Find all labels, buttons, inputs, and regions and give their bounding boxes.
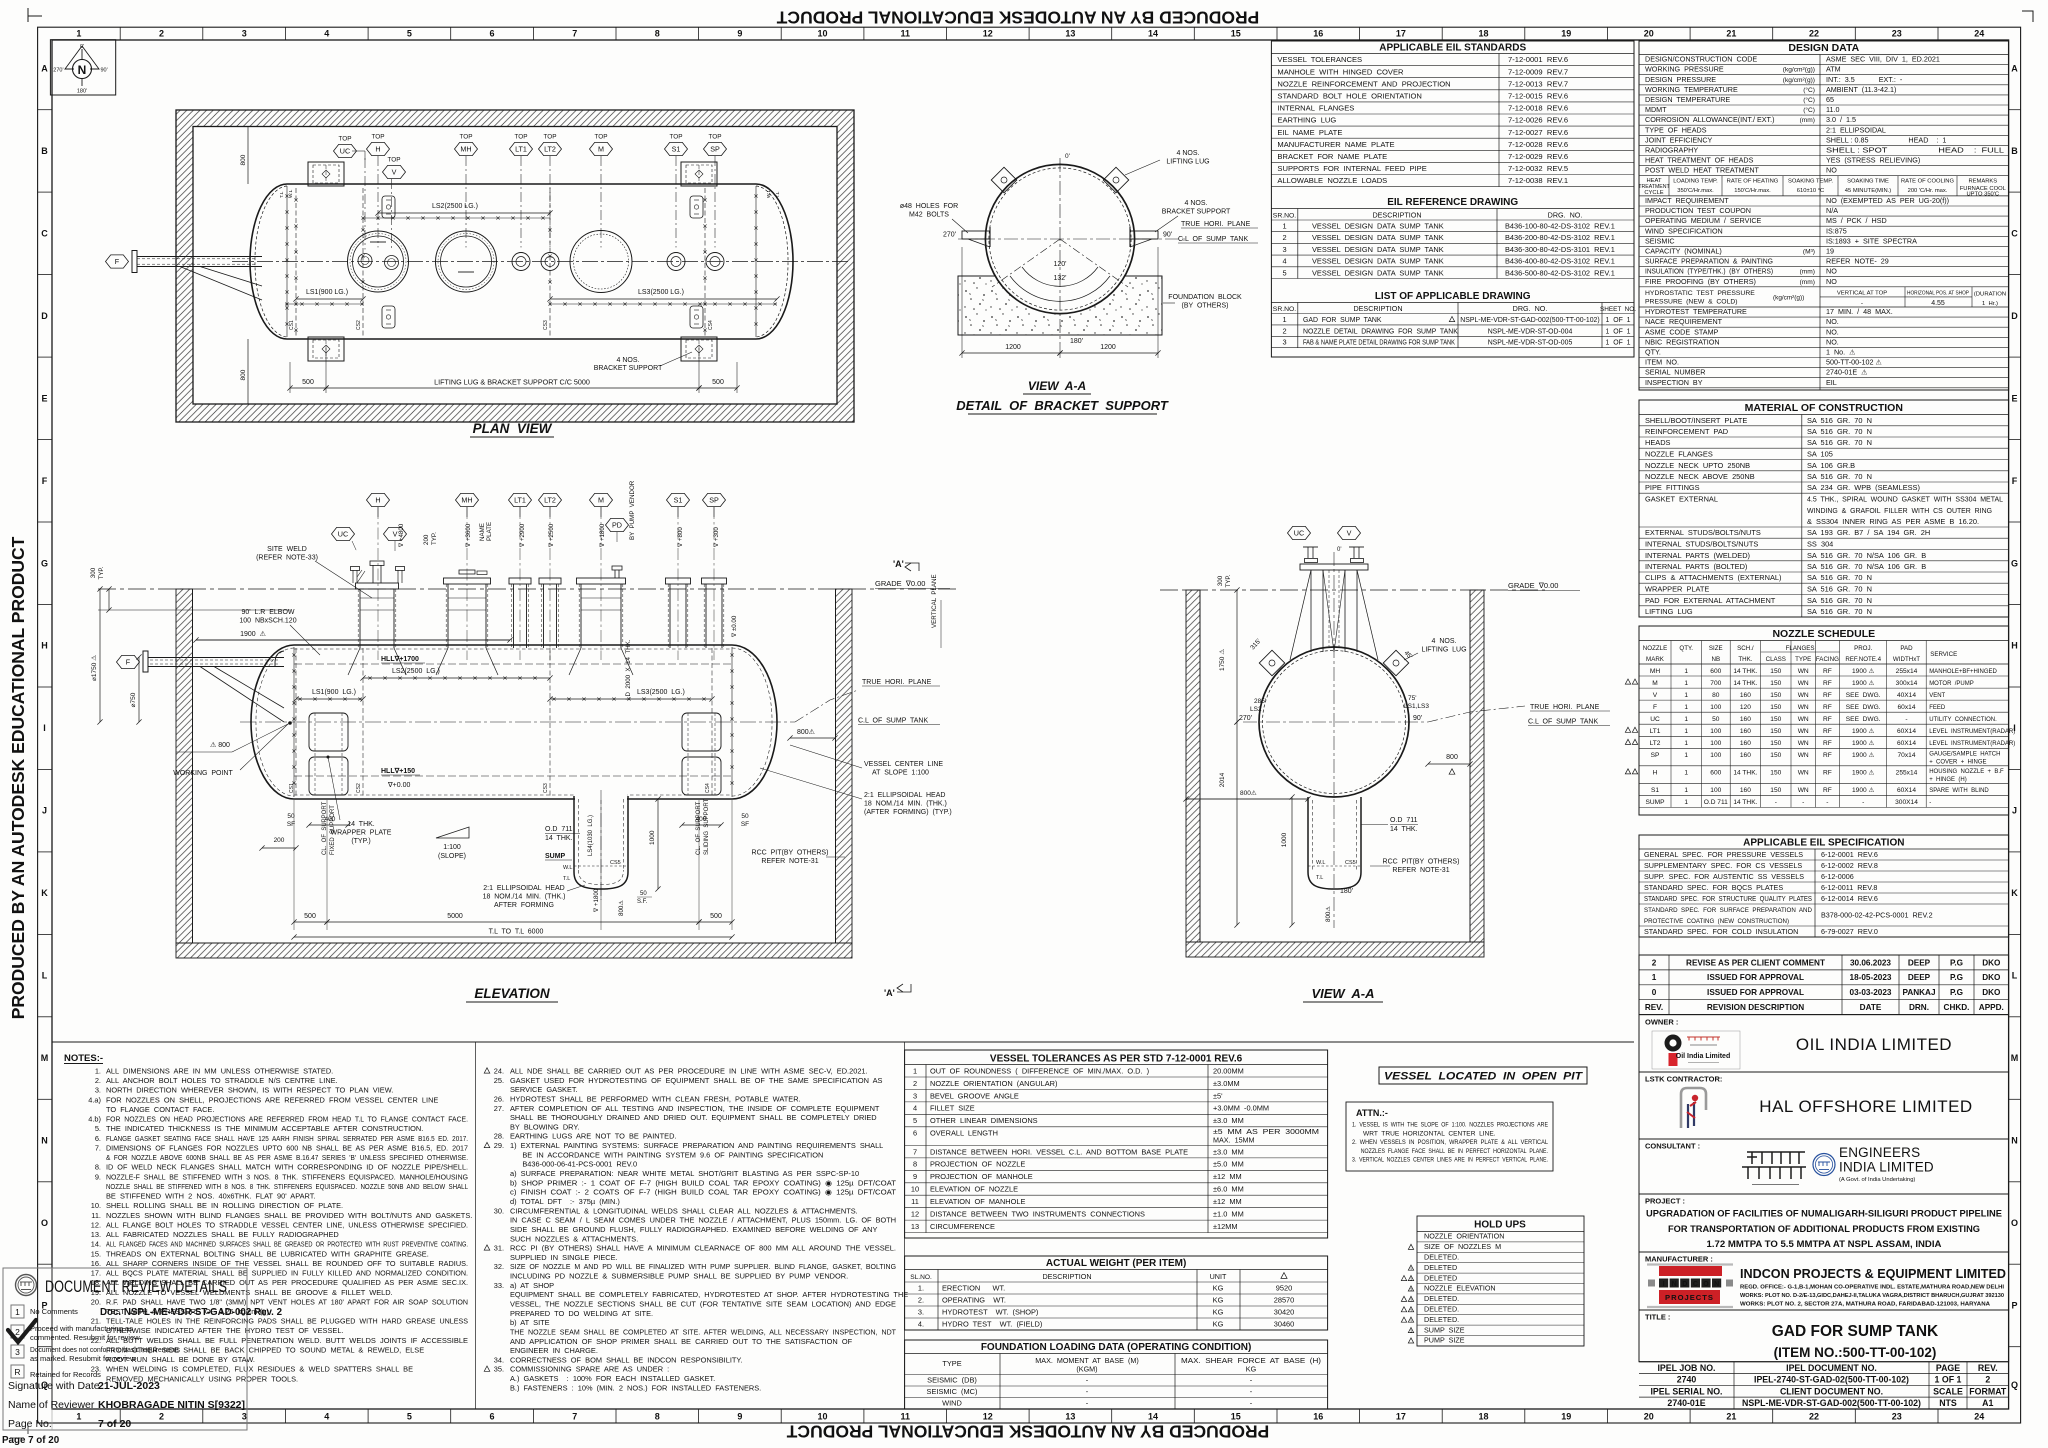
view a-a: vessel circular section — [1259, 647, 1409, 797]
svg-text:6: 6 — [913, 1129, 917, 1138]
nozzle LT1 (plan) — [512, 253, 530, 271]
svg-text:32.: 32. — [494, 1262, 504, 1271]
svg-text:TOP: TOP — [387, 157, 400, 164]
svg-text:VESSEL DESIGN DATA SUMP TA: VESSEL DESIGN DATA SUMP TANK — [1312, 257, 1444, 266]
svg-text:Name of Reviewer: Name of Reviewer — [8, 1399, 95, 1411]
svg-text:ALL ANCHOR BOLT HOLES TO: ALL ANCHOR BOLT HOLES TO STRADDLE N/S CE… — [106, 1076, 338, 1085]
svg-text:F: F — [2012, 476, 2018, 486]
svg-text:CLASS: CLASS — [1766, 656, 1786, 663]
svg-text:33.: 33. — [494, 1281, 504, 1290]
svg-text:THK.: THK. — [1738, 656, 1752, 663]
svg-text:O.D 711: O.D 711 — [1390, 817, 1418, 824]
svg-text:2: 2 — [1282, 233, 1286, 242]
svg-text:SEE DWG.: SEE DWG. — [1846, 704, 1881, 711]
svg-text:17.: 17. — [91, 1269, 101, 1278]
svg-text:MARK: MARK — [1646, 656, 1665, 663]
svg-text:SERVICE: SERVICE — [1930, 651, 1957, 658]
corner trim marks — [28, 8, 42, 22]
svg-text:NBIC REGISTRATION: NBIC REGISTRATION — [1645, 337, 1720, 346]
svg-text:1000: 1000 — [1281, 832, 1288, 847]
svg-text:12: 12 — [983, 1412, 993, 1422]
svg-text:4 NOS.: 4 NOS. — [617, 357, 640, 364]
svg-text:NSPL-ME-VDR-ST-GAD-002(500-TT-: NSPL-ME-VDR-ST-GAD-002(500-TT-00-102) — [1460, 317, 1599, 324]
svg-text:ENGINEER IN CHARGE.: ENGINEER IN CHARGE. — [510, 1346, 598, 1355]
svg-text:10: 10 — [911, 1185, 919, 1194]
svg-text:IS:1893 + SITE SPECTRA: IS:1893 + SITE SPECTRA — [1826, 236, 1917, 245]
svg-text:SIZE OF NOZZLE M AND PD: SIZE OF NOZZLE M AND PD WILL BE FINALIZE… — [510, 1262, 896, 1271]
svg-text:PIPE FITTINGS: PIPE FITTINGS — [1645, 483, 1700, 492]
svg-text:12: 12 — [911, 1210, 919, 1219]
svg-text:∇ +1800: ∇ +1800 — [593, 888, 600, 913]
svg-text:2: 2 — [1282, 326, 1286, 335]
svg-text:& FOR NOZZLE ABOVE 600NB: & FOR NOZZLE ABOVE 600NB SHALL BE AS PER… — [106, 1153, 468, 1162]
svg-text:CS4: CS4 — [705, 783, 711, 793]
svg-text:APPLICABLE EIL STANDARDS: APPLICABLE EIL STANDARDS — [1379, 43, 1526, 54]
plan: 4 shell lifting lugs — [382, 196, 395, 218]
svg-text:DRN.: DRN. — [1909, 1003, 1929, 1012]
svg-text:C: C — [41, 228, 48, 238]
svg-text:SUMP: SUMP — [1645, 799, 1665, 806]
svg-text:7-12-0001 REV.6: 7-12-0001 REV.6 — [1508, 55, 1568, 64]
elevation: wrapper plates at supports — [309, 713, 348, 751]
detail: foundation block (concrete) — [958, 276, 1162, 335]
svg-text:INT.: 3.5 EXT.: -: INT.: 3.5 EXT.: - — [1826, 75, 1903, 84]
svg-text:LS3(2500 LG.): LS3(2500 LG.) — [637, 689, 685, 696]
owner block — [1639, 1015, 2009, 1072]
svg-text:Page 7 of 20: Page 7 of 20 — [2, 1435, 60, 1446]
svg-text:NOZZLE NECK UPTO 250NB: NOZZLE NECK UPTO 250NB — [1645, 461, 1750, 470]
svg-text:1: 1 — [1282, 315, 1286, 324]
svg-text:1900 ⚠: 1900 ⚠ — [1852, 769, 1875, 777]
svg-text:CIRCUMFERENCE: CIRCUMFERENCE — [930, 1222, 995, 1231]
svg-text:LIST OF APPLICABLE DRAWING: LIST OF APPLICABLE DRAWING — [1375, 291, 1531, 302]
svg-text:18 NOM./14 MIN. (THK.): 18 NOM./14 MIN. (THK.) — [483, 894, 566, 901]
svg-text:2: 2 — [15, 1327, 20, 1337]
svg-text:5: 5 — [1282, 268, 1286, 277]
svg-text:150: 150 — [1770, 752, 1781, 759]
svg-text:(mm): (mm) — [1800, 269, 1815, 276]
svg-text:CS3: CS3 — [543, 783, 549, 793]
svg-text:30420: 30420 — [1274, 1308, 1295, 1317]
svg-text:HOUSING NOZZLE + B.F: HOUSING NOZZLE + B.F — [1929, 769, 2004, 775]
svg-text:(°C): (°C) — [1803, 86, 1815, 94]
svg-text:500: 500 — [302, 379, 314, 386]
svg-text:NSPL-ME-VDR-ST-GAD-002(500-TT-: NSPL-ME-VDR-ST-GAD-002(500-TT-00-102) — [1742, 1398, 1921, 1408]
svg-text:6-12-0011 REV.8: 6-12-0011 REV.8 — [1821, 883, 1877, 892]
svg-text:1200: 1200 — [1005, 344, 1021, 351]
svg-text:4.5 THK., SPIRAL WOUND GAS: 4.5 THK., SPIRAL WOUND GASKET WITH SS304… — [1807, 497, 2003, 504]
view a-a: top nozzle tower — [1300, 564, 1368, 570]
svg-text:QTY.: QTY. — [1645, 348, 1661, 357]
svg-text:RF: RF — [1823, 740, 1832, 747]
svg-text:14: 14 — [1148, 29, 1158, 39]
plan: weld seam tick lines — [363, 217, 550, 219]
svg-text:INTERNAL FLANGES: INTERNAL FLANGES — [1277, 104, 1354, 113]
svg-text:14: 14 — [1148, 1412, 1158, 1422]
svg-text:RF: RF — [1823, 728, 1832, 735]
svg-text:NOZZLE REINFORCEMENT AND PR: NOZZLE REINFORCEMENT AND PROJECTION — [1277, 79, 1450, 88]
svg-text:1 OF 1: 1 OF 1 — [1935, 1375, 1962, 1385]
svg-text:1 OF 1: 1 OF 1 — [1606, 340, 1631, 347]
svg-text:S1: S1 — [1651, 787, 1659, 794]
svg-text:DISTANCE BETWEEN TWO INSTRU: DISTANCE BETWEEN TWO INSTRUMENTS CONNECT… — [930, 1210, 1145, 1219]
design data table — [1639, 41, 2009, 390]
svg-text:SLIDING SUPPORT: SLIDING SUPPORT — [704, 798, 710, 855]
nozzle LT2 standpipe — [543, 584, 545, 648]
svg-text:PLAN VIEW: PLAN VIEW — [473, 421, 553, 436]
svg-text:1900 ⚠: 1900 ⚠ — [1852, 786, 1875, 794]
svg-text:INSULATION (TYPE/THK.) (BY: INSULATION (TYPE/THK.) (BY OTHERS) — [1645, 267, 1773, 276]
svg-text:VESSEL DESIGN DATA SUMP TA: VESSEL DESIGN DATA SUMP TANK — [1312, 268, 1444, 277]
svg-text:1.72 MMTPA TO 5.5 MMTPA AT NSP: 1.72 MMTPA TO 5.5 MMTPA AT NSPL ASSAM, I… — [1707, 1239, 1942, 1250]
svg-text:NO (EXEMPTED AS PER UG-20(: NO (EXEMPTED AS PER UG-20(f)) — [1826, 196, 1949, 205]
svg-text:∇ +2500: ∇ +2500 — [548, 523, 555, 548]
svg-text:7: 7 — [913, 1147, 917, 1156]
svg-text:SS 304: SS 304 — [1807, 540, 1833, 549]
svg-text:100: 100 — [1710, 752, 1721, 759]
svg-text:∇ ±0.00: ∇ ±0.00 — [731, 615, 738, 638]
svg-text:G: G — [41, 558, 48, 568]
view a-a: lifting lugs on shell — [1259, 650, 1284, 675]
svg-text:SA 516 GR. 70 N/SA 106 G: SA 516 GR. 70 N/SA 106 GR. B — [1807, 551, 1926, 560]
svg-text:STANDARD SPEC. FOR COLD IN: STANDARD SPEC. FOR COLD INSULATION — [1644, 927, 1798, 936]
svg-text:NTS: NTS — [1939, 1398, 1957, 1408]
svg-text:14 THK.: 14 THK. — [1733, 668, 1757, 675]
svg-text:M: M — [2011, 1053, 2019, 1063]
svg-text:No Comments: No Comments — [30, 1307, 78, 1316]
svg-text:45 MINUTE(MIN.): 45 MINUTE(MIN.) — [1845, 188, 1891, 194]
svg-text:WRAPPER PLATE: WRAPPER PLATE — [1645, 585, 1709, 594]
svg-text:LS2(2500 LG.): LS2(2500 LG.) — [432, 203, 478, 210]
svg-text:MH: MH — [461, 495, 472, 504]
svg-text:Doc. NSPL-ME-VDR-ST-GAD-002 Re: Doc. NSPL-ME-VDR-ST-GAD-002 Rev. 2 — [100, 1306, 282, 1318]
svg-text:Signature with Date: Signature with Date — [8, 1380, 100, 1392]
svg-text:PROJECTS: PROJECTS — [1665, 1293, 1714, 1302]
svg-text:WORKING POINT: WORKING POINT — [173, 770, 233, 777]
svg-text:c) FINISH COAT :- 2 COATS: c) FINISH COAT :- 2 COATS OF F-7 (HIGH B… — [510, 1188, 897, 1197]
svg-text:J: J — [42, 806, 47, 816]
svg-text:18 NOM./14 MIN. (THK.): 18 NOM./14 MIN. (THK.) — [864, 801, 947, 808]
svg-text:O: O — [1703, 1281, 1709, 1288]
svg-text:DESCRIPTION: DESCRIPTION — [1353, 304, 1402, 313]
svg-text:50: 50 — [1712, 716, 1720, 723]
svg-text:V: V — [393, 529, 398, 538]
svg-text:+ COVER + HINGE: + COVER + HINGE — [1929, 759, 1986, 765]
svg-text:SP: SP — [709, 495, 719, 504]
svg-text:IMPACT REQUIREMENT: IMPACT REQUIREMENT — [1645, 196, 1729, 205]
svg-text:±1.0 MM: ±1.0 MM — [1213, 1210, 1244, 1219]
svg-text:15: 15 — [1231, 29, 1241, 39]
svg-text:ELEVATION: ELEVATION — [474, 986, 550, 1001]
svg-text:1000: 1000 — [649, 830, 656, 845]
svg-text:OPERATING WT.: OPERATING WT. — [942, 1296, 1006, 1305]
svg-text:1: 1 — [1684, 668, 1688, 675]
svg-text:FLANGE GASKET SEATING FACE: FLANGE GASKET SEATING FACE SHALL HAVE 12… — [106, 1134, 468, 1143]
svg-text:12.: 12. — [91, 1220, 101, 1229]
svg-text:N: N — [41, 1136, 48, 1146]
svg-text:TOP: TOP — [594, 134, 607, 141]
svg-text:UC: UC — [1294, 528, 1304, 537]
svg-text:DELETED: DELETED — [1424, 1273, 1457, 1282]
svg-text:1: 1 — [1684, 770, 1688, 777]
svg-text:DKO: DKO — [1982, 958, 2001, 967]
svg-text:6-79-0027 REV.0: 6-79-0027 REV.0 — [1821, 927, 1878, 936]
svg-text:VIEW A-A: VIEW A-A — [1311, 986, 1374, 1001]
svg-text:2: 2 — [159, 29, 164, 39]
svg-text:60X14: 60X14 — [1897, 787, 1916, 794]
svg-text:⚠ 800: ⚠ 800 — [210, 741, 230, 749]
svg-text:DESCRIPTION: DESCRIPTION — [1372, 210, 1421, 219]
svg-text:13: 13 — [1065, 1412, 1075, 1422]
elevation: vessel centerline — [240, 721, 795, 723]
svg-text:PUMP SIZE: PUMP SIZE — [1424, 1336, 1465, 1345]
svg-text:26.: 26. — [494, 1095, 504, 1104]
svg-text:WN: WN — [1798, 704, 1809, 711]
svg-text:∇+0.00: ∇+0.00 — [387, 781, 411, 789]
svg-text:HAL OFFSHORE LIMITED: HAL OFFSHORE LIMITED — [1759, 1097, 1972, 1116]
svg-text:(TYP.): (TYP.) — [351, 838, 370, 845]
svg-text:T.L TO T.L 6000: T.L TO T.L 6000 — [489, 929, 544, 936]
view a-a: centerlines — [1333, 552, 1335, 928]
svg-text:POST WELD HEAT TREATMENT: POST WELD HEAT TREATMENT — [1645, 166, 1760, 175]
svg-text:LIFTING LUG: LIFTING LUG — [1645, 607, 1693, 616]
svg-text:C.L OF SUMP TANK: C.L OF SUMP TANK — [1528, 719, 1598, 726]
svg-text:ENGINEERS: ENGINEERS — [1839, 1145, 1920, 1160]
svg-text:HYDROTEST SHALL BE PERFORME: HYDROTEST SHALL BE PERFORMED WITH CLEAN … — [510, 1095, 801, 1104]
svg-text:P.G: P.G — [1950, 973, 1963, 982]
elevation: HLL +1700 level line — [294, 663, 732, 665]
svg-text:SUMP: SUMP — [545, 853, 566, 860]
svg-text:WORKS: PLOT NO. D-2/E-13,GIDC,: WORKS: PLOT NO. D-2/E-13,GIDC,DAHEJ-II,T… — [1740, 1293, 2004, 1299]
svg-text:P.G: P.G — [1950, 988, 1963, 997]
svg-text:60x14: 60x14 — [1898, 704, 1916, 711]
svg-text:100 NBxSCH.120: 100 NBxSCH.120 — [239, 618, 296, 625]
svg-text:TOP: TOP — [459, 134, 472, 141]
svg-text:G: G — [2011, 558, 2018, 568]
svg-text:STANDARD SPEC. FOR SURFACE: STANDARD SPEC. FOR SURFACE PREPARATION A… — [1644, 907, 1812, 914]
svg-text:100: 100 — [1710, 740, 1721, 747]
svg-text:NO.: NO. — [1826, 337, 1839, 346]
svg-text:W.L: W.L — [766, 189, 772, 198]
svg-text:SERIAL NUMBER: SERIAL NUMBER — [1645, 368, 1705, 377]
svg-text:BY PUMP VENDOR: BY PUMP VENDOR — [629, 480, 636, 540]
svg-text:NOZZLE ELEVATION: NOZZLE ELEVATION — [1424, 1284, 1496, 1293]
svg-text:REV.: REV. — [1645, 1003, 1663, 1012]
svg-text:W.L: W.L — [288, 189, 294, 198]
svg-text:FOUNDATION BLOCK: FOUNDATION BLOCK — [1168, 294, 1242, 301]
svg-text:HLL∇+1700: HLL∇+1700 — [381, 655, 419, 663]
svg-text:VESSEL LOCATED IN OPEN PIT: VESSEL LOCATED IN OPEN PIT — [1384, 1071, 1583, 1083]
svg-text:+ HINGE (H): + HINGE (H) — [1929, 777, 1967, 783]
svg-text:DRG. NO.: DRG. NO. — [1548, 210, 1583, 219]
svg-text:9520: 9520 — [1276, 1284, 1292, 1293]
svg-text:132': 132' — [1053, 275, 1066, 282]
svg-text:0': 0' — [80, 44, 84, 50]
svg-text:TOP: TOP — [371, 134, 384, 141]
svg-text:RCC PIT(BY OTHERS): RCC PIT(BY OTHERS) — [752, 850, 829, 857]
svg-text:(ITEM NO.:500-TT-00-102): (ITEM NO.:500-TT-00-102) — [1774, 1345, 1937, 1360]
svg-text:FACING: FACING — [1816, 656, 1839, 663]
svg-text:2.: 2. — [918, 1296, 924, 1305]
svg-text:B436-000-06-41-PCS-0001 REV.0: B436-000-06-41-PCS-0001 REV.0 — [510, 1160, 637, 1169]
svg-text:10.: 10. — [91, 1201, 101, 1210]
svg-text:SA 516 GR. 70 N: SA 516 GR. 70 N — [1807, 596, 1872, 605]
svg-text:DATE: DATE — [1860, 1003, 1882, 1012]
svg-text:VERTICAL AT TOP: VERTICAL AT TOP — [1837, 291, 1887, 297]
svg-text:CAPACITY (NOMINAL): CAPACITY (NOMINAL) — [1645, 247, 1722, 256]
svg-text:CS4: CS4 — [708, 320, 714, 330]
svg-text:C.L OF SUMP TANK: C.L OF SUMP TANK — [858, 718, 928, 725]
svg-text:8: 8 — [655, 29, 660, 39]
svg-text:1200: 1200 — [1100, 344, 1116, 351]
svg-text:SA 516 GR. 70 N: SA 516 GR. 70 N — [1807, 585, 1872, 594]
detail: lifting lug left (315 deg) — [991, 167, 1016, 192]
hal offshore logo — [1681, 1088, 1706, 1128]
svg-text:7-12-0038 REV.1: 7-12-0038 REV.1 — [1508, 176, 1568, 185]
name plate mark on MH — [477, 571, 487, 575]
svg-text:2:1 ELLIPSOIDAL: 2:1 ELLIPSOIDAL — [1826, 125, 1886, 134]
plan: tag leader centerlines down to nozzles — [364, 158, 366, 250]
svg-text:1: 1 — [1684, 704, 1688, 711]
svg-text:100: 100 — [1710, 728, 1721, 735]
svg-text:N: N — [2011, 1136, 2018, 1146]
svg-text:TITLE :: TITLE : — [1645, 1313, 1670, 1322]
detail: centerlines — [1059, 158, 1061, 344]
svg-text:800⚠: 800⚠ — [797, 728, 815, 736]
hold ups table — [1417, 1216, 1584, 1346]
svg-text:DESIGN/CONSTRUCTION CODE: DESIGN/CONSTRUCTION CODE — [1645, 55, 1757, 64]
svg-text:600: 600 — [1710, 668, 1721, 675]
svg-text:1900 ⚠: 1900 ⚠ — [1852, 751, 1875, 759]
svg-text:SPARE WITH BLIND: SPARE WITH BLIND — [1929, 788, 1989, 794]
svg-text:3: 3 — [242, 1412, 247, 1422]
svg-text:1750 ⚠: 1750 ⚠ — [1218, 649, 1226, 671]
nozzle S1 (plan) — [667, 253, 685, 271]
svg-text:LIFTING LUG: LIFTING LUG — [1166, 159, 1209, 166]
svg-text:SOAKING TEMP.: SOAKING TEMP. — [1788, 179, 1833, 185]
svg-text:M: M — [1652, 680, 1658, 687]
svg-text:4 NOS.: 4 NOS. — [1177, 150, 1200, 157]
svg-text:DELETED.: DELETED. — [1424, 1305, 1459, 1314]
svg-text:±3.0 MM: ±3.0 MM — [1213, 1147, 1244, 1156]
svg-text:20: 20 — [1644, 1412, 1654, 1422]
svg-text:Document does not conform to b: Document does not conform to basic requi… — [30, 1345, 180, 1354]
svg-text:(mm): (mm) — [1800, 117, 1815, 124]
svg-text:6: 6 — [489, 29, 494, 39]
svg-text:VESSEL TOLERANCES AS PER STD 7: VESSEL TOLERANCES AS PER STD 7-12-0001 R… — [990, 1054, 1243, 1065]
svg-text:F: F — [1653, 704, 1657, 711]
svg-text:AMBIENT (11.3-42.1): AMBIENT (11.3-42.1) — [1826, 85, 1896, 94]
elevation: HLL +150 level line — [294, 775, 732, 777]
svg-text:ASME SEC VIII, DIV 1, ED.: ASME SEC VIII, DIV 1, ED.2021 — [1826, 55, 1940, 64]
svg-text:(REFER NOTE-33): (REFER NOTE-33) — [256, 555, 318, 562]
svg-text:150: 150 — [1770, 704, 1781, 711]
svg-text:11: 11 — [900, 29, 910, 39]
svg-text:ACTUAL WEIGHT (PER ITEM): ACTUAL WEIGHT (PER ITEM) — [1046, 1258, 1186, 1269]
svg-text:RF: RF — [1823, 680, 1832, 687]
svg-text:WN: WN — [1798, 728, 1809, 735]
svg-text:DOCUMENT REVIEW DETAILS: DOCUMENT REVIEW DETAILS — [45, 1278, 227, 1296]
plan: nozzle F pipe with flange — [137, 256, 262, 258]
svg-text:NB: NB — [1711, 656, 1720, 663]
svg-text:d) TOTAL DFT :- 375µ (M: d) TOTAL DFT :- 375µ (MIN.) — [510, 1197, 620, 1206]
svg-text:IPEL JOB NO.: IPEL JOB NO. — [1657, 1363, 1715, 1373]
svg-text:C.L OF SUMP TANK: C.L OF SUMP TANK — [1178, 236, 1248, 243]
svg-text:A1: A1 — [1982, 1398, 1993, 1408]
svg-text:500-TT-00-102 ⚠: 500-TT-00-102 ⚠ — [1826, 358, 1882, 367]
svg-text:400: 400 — [696, 816, 707, 823]
svg-text:300X14: 300X14 — [1895, 799, 1918, 806]
document review stamp box — [3, 1268, 247, 1430]
svg-text:SR.NO.: SR.NO. — [1273, 212, 1297, 219]
svg-text:INDCON PROJECTS & EQUIPMENT LI: INDCON PROJECTS & EQUIPMENT LIMITED — [1740, 1266, 2006, 1281]
svg-text:DISTANCE BETWEEN HORI. VESS: DISTANCE BETWEEN HORI. VESSEL C.L. AND B… — [930, 1147, 1188, 1156]
svg-text:TYP.: TYP. — [98, 566, 105, 579]
svg-text:GRADE ∇0.00: GRADE ∇0.00 — [875, 579, 925, 588]
svg-text:PRODUCTION TEST COUPON: PRODUCTION TEST COUPON — [1645, 206, 1751, 215]
svg-text:TRUE HORI. PLANE: TRUE HORI. PLANE — [1181, 221, 1251, 228]
svg-text:VENT: VENT — [1929, 693, 1945, 699]
svg-text:3: 3 — [913, 1091, 917, 1100]
svg-text:∇ +3600: ∇ +3600 — [465, 523, 472, 548]
svg-text:BE STIFFENED WITH 2 NOS.: BE STIFFENED WITH 2 NOS. 40x6THK. FLAT 9… — [106, 1192, 316, 1201]
svg-text:60X14: 60X14 — [1897, 728, 1916, 735]
svg-text:800: 800 — [1446, 754, 1458, 761]
indcon projects logo — [1647, 1263, 1733, 1265]
svg-text:APPD.: APPD. — [1979, 1003, 2004, 1012]
svg-text:PROJ.: PROJ. — [1854, 645, 1873, 652]
svg-text:REV.: REV. — [1978, 1363, 1998, 1373]
svg-text:ID OF WELD NECK FLANGES S: ID OF WELD NECK FLANGES SHALL MATCH WITH… — [106, 1163, 468, 1172]
svg-text:RADIOGRAPHY: RADIOGRAPHY — [1645, 146, 1698, 155]
svg-text:12: 12 — [983, 29, 993, 39]
svg-text:4: 4 — [1282, 257, 1286, 266]
svg-text:DESIGN TEMPERATURE: DESIGN TEMPERATURE — [1645, 95, 1730, 104]
svg-text:4: 4 — [324, 1412, 329, 1422]
svg-text:LEVEL INSTRUMENT(RADAR): LEVEL INSTRUMENT(RADAR) — [1929, 729, 2015, 735]
svg-text:2:1 ELLIPSOIDAL HEAD: 2:1 ELLIPSOIDAL HEAD — [483, 885, 564, 892]
svg-text:9.: 9. — [91, 1172, 101, 1181]
svg-text:MH: MH — [1650, 668, 1660, 675]
svg-text:1: 1 — [1282, 222, 1286, 231]
svg-text:16: 16 — [1313, 1412, 1323, 1422]
svg-text:T.L: T.L — [1316, 875, 1323, 881]
svg-text:NO: NO — [1826, 267, 1837, 276]
svg-text:1: 1 — [913, 1066, 917, 1075]
svg-text:REFER NOTE-31: REFER NOTE-31 — [761, 858, 818, 865]
svg-text:VESSEL DESIGN DATA SUMP TA: VESSEL DESIGN DATA SUMP TANK — [1312, 222, 1444, 231]
svg-text:800: 800 — [240, 369, 247, 380]
svg-text:4 NOS.: 4 NOS. — [1432, 638, 1457, 645]
oil india limited logo — [1652, 1031, 1740, 1069]
svg-text:NOZZLES SHOWN WITH BLIND F: NOZZLES SHOWN WITH BLIND FLANGES SHALL B… — [106, 1211, 472, 1220]
svg-text:⌀1750 ⚠: ⌀1750 ⚠ — [90, 655, 98, 681]
svg-text:∇ +2900: ∇ +2900 — [519, 523, 526, 548]
elevation: pit left wall hatched — [176, 589, 193, 943]
svg-text:ø48 HOLES FOR: ø48 HOLES FOR — [900, 203, 958, 210]
elevation: sump W.L line and labels — [574, 865, 628, 867]
svg-text:THREADS ON EXTERNAL BOLTING: THREADS ON EXTERNAL BOLTING SHALL BE LUB… — [106, 1249, 429, 1258]
svg-text:RCC PI (BY OTHERS) SHALL: RCC PI (BY OTHERS) SHALL HAVE A MINIMUM … — [510, 1244, 896, 1253]
svg-text:600: 600 — [1710, 770, 1721, 777]
svg-text:Q: Q — [2011, 1380, 2018, 1390]
svg-text:LS4(1030 LG.): LS4(1030 LG.) — [588, 815, 594, 856]
manufacturer block — [1639, 1252, 2009, 1310]
svg-text:800⚠: 800⚠ — [1240, 789, 1257, 797]
svg-text:2740-01E ⚠: 2740-01E ⚠ — [1826, 368, 1868, 377]
plan: head tangent lines T.L with weld ticks — [286, 186, 288, 337]
svg-text:3: 3 — [242, 29, 247, 39]
